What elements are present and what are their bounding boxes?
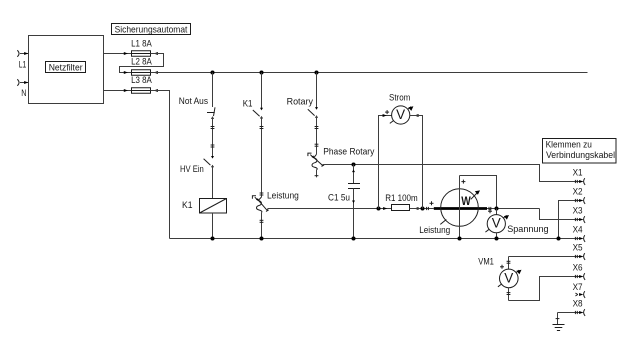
label L1 bbox=[19, 60, 27, 70]
wire Strom meter left bbox=[379, 114, 392, 209]
label N bbox=[21, 88, 26, 98]
svg-text:Netzfilter: Netzfilter bbox=[49, 62, 83, 72]
meter VM1 bbox=[498, 257, 522, 301]
svg-text:Klemmen zu: Klemmen zu bbox=[546, 140, 592, 150]
svg-text:Sicherungsautomat: Sicherungsautomat bbox=[115, 24, 188, 34]
svg-text:X1: X1 bbox=[573, 168, 583, 178]
breaker Leistung bbox=[252, 196, 268, 239]
svg-text:W: W bbox=[461, 194, 471, 208]
svg-text:V: V bbox=[492, 216, 501, 231]
terminal X2 bbox=[559, 187, 586, 239]
meter wattmeter W bbox=[440, 189, 480, 227]
wire Rotary to Phase Rotary breaker bbox=[315, 116, 319, 155]
node C1 bottom junction bbox=[352, 237, 356, 241]
terminal X5 bbox=[509, 243, 586, 260]
terminal X1 bbox=[573, 168, 586, 185]
wire netzfilter to fuse L1 bbox=[104, 52, 132, 55]
svg-text:N: N bbox=[21, 88, 26, 98]
label Phase Rotary bbox=[323, 146, 374, 156]
node spannung bottom junction bbox=[495, 237, 499, 241]
svg-text:L2 8A: L2 8A bbox=[131, 56, 152, 66]
label K1 coil bbox=[182, 200, 193, 210]
terminal X4 bbox=[573, 225, 586, 242]
connector input N bbox=[17, 79, 28, 86]
wire Leistung breaker to R1 bbox=[268, 208, 392, 210]
node C1 top junction bbox=[352, 163, 356, 167]
wire Strom meter right bbox=[410, 114, 423, 209]
svg-text:Spannung: Spannung bbox=[507, 224, 548, 234]
svg-text:L1 8A: L1 8A bbox=[131, 39, 152, 49]
svg-text:X5: X5 bbox=[573, 243, 583, 253]
wire bus to Not Aus switch bbox=[212, 73, 214, 108]
wire wattmeter voltage coil bbox=[460, 176, 497, 239]
switch K1 contact NO bbox=[253, 108, 263, 119]
node X2 bus junction bbox=[557, 237, 561, 241]
node bus junction 2 bbox=[260, 71, 264, 75]
svg-text:Verbindungskabel: Verbindungskabel bbox=[546, 150, 615, 160]
node spannung top junction bbox=[495, 207, 499, 211]
svg-text:HV Ein: HV Ein bbox=[180, 164, 204, 174]
wire netzfilter to fuse L3 bbox=[104, 89, 132, 92]
wire Not Aus to HV Ein bbox=[211, 117, 215, 158]
netzfilter box U1 bbox=[29, 36, 104, 104]
svg-text:X7: X7 bbox=[573, 282, 583, 292]
svg-text:X3: X3 bbox=[573, 206, 583, 216]
svg-text:VM1: VM1 bbox=[478, 256, 494, 266]
svg-text:Leistung: Leistung bbox=[267, 191, 299, 201]
ground bbox=[553, 313, 565, 331]
breaker Phase Rotary bbox=[308, 153, 324, 177]
svg-text:X8: X8 bbox=[573, 299, 583, 309]
fuse L2 8A bbox=[131, 56, 152, 75]
node bus junction 1 bbox=[211, 71, 215, 75]
wire fuse L3 to bottom bus bbox=[151, 89, 170, 239]
wire Phase Rotary to X1 bbox=[323, 165, 583, 182]
label K1 contact bbox=[243, 99, 253, 109]
svg-text:L1: L1 bbox=[19, 60, 27, 70]
bottom bus wire bbox=[170, 238, 583, 240]
node R1 right junction bbox=[410, 207, 434, 211]
resistor R1 100m bbox=[385, 193, 418, 211]
label Strom bbox=[389, 92, 411, 102]
wire bus to K1 contact bbox=[261, 73, 263, 110]
svg-text:V: V bbox=[396, 107, 405, 122]
svg-text:Strom: Strom bbox=[389, 92, 411, 102]
label Not Aus bbox=[179, 96, 209, 106]
svg-text:Rotary: Rotary bbox=[287, 96, 314, 106]
svg-text:K1: K1 bbox=[243, 99, 253, 109]
terminal X8 bbox=[558, 299, 586, 316]
node Leistung bottom junction bbox=[260, 237, 264, 241]
capacitor C1 5u bbox=[328, 165, 360, 239]
box klemmen zu verbindungskabel bbox=[543, 139, 617, 164]
relay coil K1 bbox=[200, 199, 227, 239]
wire thick wattmeter current path bbox=[434, 207, 487, 210]
svg-text:X6: X6 bbox=[573, 263, 583, 273]
svg-text:X4: X4 bbox=[573, 225, 583, 235]
svg-text:X2: X2 bbox=[573, 187, 583, 197]
switch Not Aus NC bbox=[207, 107, 215, 119]
netzfilter label box bbox=[46, 62, 86, 73]
label Leistung breaker bbox=[267, 191, 299, 201]
node R1 left junction bbox=[377, 207, 388, 211]
terminal X3 bbox=[573, 206, 586, 223]
node bus junction 3 bbox=[315, 71, 319, 75]
meter Strom V bbox=[385, 106, 413, 124]
svg-text:C1 5u: C1 5u bbox=[328, 192, 350, 202]
connector input L1 bbox=[17, 50, 28, 57]
node wattmeter bottom junction bbox=[458, 237, 462, 241]
label Rotary bbox=[287, 96, 314, 106]
switch Rotary NO bbox=[308, 107, 318, 118]
wire fuse L1 output loop bbox=[120, 52, 164, 74]
svg-text:L3 8A: L3 8A bbox=[131, 75, 152, 85]
svg-text:R1 100m: R1 100m bbox=[385, 193, 418, 203]
svg-text:Phase Rotary: Phase Rotary bbox=[323, 146, 374, 156]
svg-text:Leistung: Leistung bbox=[419, 225, 450, 235]
wire VM1 bottom to X6 bbox=[509, 277, 583, 301]
label Spannung bbox=[507, 224, 548, 234]
svg-text:K1: K1 bbox=[182, 200, 193, 210]
label plus wattmeter current in bbox=[430, 201, 434, 205]
label VM1 bbox=[478, 256, 494, 266]
node K1 coil bottom junction bbox=[211, 237, 215, 241]
fuse L3 8A bbox=[131, 75, 152, 93]
meter Spannung V bbox=[485, 209, 509, 239]
wire bus to Rotary switch bbox=[316, 73, 318, 109]
svg-text:Not Aus: Not Aus bbox=[179, 96, 209, 106]
svg-text:V: V bbox=[504, 270, 513, 285]
fuse L1 8A bbox=[131, 39, 152, 57]
switch HV Ein NO bbox=[204, 156, 214, 199]
sicherungsautomat label box bbox=[112, 24, 191, 35]
main bus wire bbox=[151, 71, 588, 74]
terminal X7 bbox=[573, 282, 586, 298]
label HV Ein bbox=[180, 164, 204, 174]
wire K1 contact to Leistung breaker bbox=[260, 117, 264, 198]
wire R1 line to X3 bbox=[487, 207, 583, 220]
terminal X6 bbox=[573, 263, 586, 280]
label Leistung meter bbox=[419, 225, 450, 235]
